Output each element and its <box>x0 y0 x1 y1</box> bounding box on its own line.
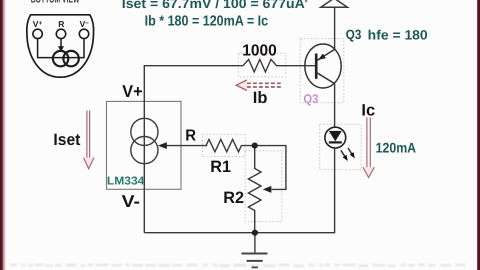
svg-text:Ic: Ic <box>361 101 375 119</box>
svg-text:120mA: 120mA <box>376 139 417 155</box>
svg-text:LM334: LM334 <box>107 176 145 188</box>
svg-text:Q3: Q3 <box>346 27 362 42</box>
svg-text:R2: R2 <box>223 189 244 207</box>
svg-text:V+: V+ <box>122 82 142 101</box>
svg-text:R1: R1 <box>210 158 231 176</box>
svg-text:1000: 1000 <box>242 43 277 60</box>
svg-text:hfe = 180: hfe = 180 <box>368 28 428 43</box>
svg-text:BOTTOM VIEW: BOTTOM VIEW <box>31 0 80 6</box>
svg-text:V-: V- <box>122 192 140 211</box>
svg-text:Ib * 180 = 120mA = Ic: Ib * 180 = 120mA = Ic <box>145 14 269 30</box>
svg-text:R: R <box>58 19 64 29</box>
svg-text:°: ° <box>305 0 308 8</box>
svg-text:R: R <box>185 127 196 144</box>
svg-text:Q3: Q3 <box>303 92 318 106</box>
svg-text:Ib: Ib <box>253 89 268 107</box>
svg-text:Iset = 67.7mV / 100 = 677uA: Iset = 67.7mV / 100 = 677uA <box>122 0 305 11</box>
svg-text:Iset: Iset <box>53 131 80 149</box>
